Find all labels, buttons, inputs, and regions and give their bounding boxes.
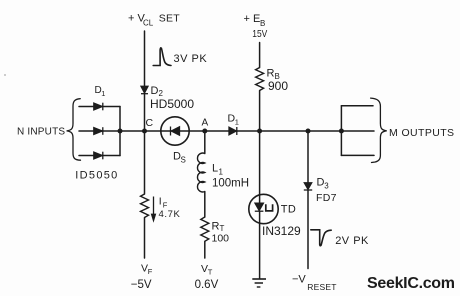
- svg-text:I: I: [159, 196, 162, 208]
- node A: [202, 129, 207, 134]
- wire output top line: [341, 105, 373, 107]
- node outputs: [339, 129, 344, 134]
- node junction dots: [118, 129, 344, 134]
- svg-text:M OUTPUTS: M OUTPUTS: [389, 127, 454, 139]
- brace N inputs: [67, 99, 81, 161]
- svg-text:S: S: [181, 156, 186, 165]
- label RT: [212, 220, 225, 233]
- svg-text:1: 1: [235, 118, 239, 127]
- label IF: [159, 196, 168, 210]
- label +VCL SET: [128, 13, 180, 28]
- brace M outputs: [371, 98, 387, 162]
- diode input bottom: [94, 152, 103, 160]
- svg-text:SET: SET: [159, 13, 180, 25]
- label D2: [151, 85, 164, 98]
- speck artifact: [4, 74, 6, 76]
- wire A column to L1: [204, 131, 206, 154]
- svg-text:2V PK: 2V PK: [335, 235, 369, 247]
- wire RT to VT: [204, 241, 206, 258]
- svg-text:T: T: [208, 268, 213, 277]
- wire input vertical join: [119, 107, 121, 156]
- waveform 2V PK pulse: [311, 230, 331, 246]
- diode DS: [171, 127, 180, 136]
- label L1: [212, 163, 224, 177]
- wire VCL column to bus: [144, 94, 146, 131]
- wire output bottom line: [341, 154, 374, 156]
- wire output vertical join: [340, 106, 342, 156]
- ground: [252, 279, 266, 287]
- wire input bottom line: [79, 155, 120, 157]
- svg-text:SeekIC.com: SeekIC.com: [367, 275, 455, 292]
- wire bus to TD: [259, 131, 261, 203]
- svg-text:CL: CL: [143, 19, 154, 28]
- svg-text:ID5050: ID5050: [75, 170, 118, 182]
- svg-text:TD: TD: [281, 204, 296, 216]
- svg-text:N INPUTS: N INPUTS: [17, 127, 65, 138]
- svg-text:A: A: [202, 118, 209, 129]
- current arrow IF: [152, 197, 156, 221]
- svg-text:3: 3: [324, 181, 329, 190]
- svg-text:900: 900: [268, 79, 288, 93]
- node input join: [118, 129, 123, 134]
- svg-text:D: D: [151, 85, 159, 97]
- label VF: [141, 262, 153, 276]
- svg-text:B: B: [260, 19, 265, 28]
- wire IF resistor to VF: [144, 218, 146, 259]
- svg-text:1: 1: [219, 168, 224, 177]
- wire C column to IF resistor: [144, 131, 146, 194]
- wire TD to ground: [259, 212, 261, 279]
- diode DS circle: [161, 117, 189, 145]
- label DS: [173, 151, 186, 165]
- diode D2: [141, 86, 148, 93]
- label D1 bus: [228, 113, 239, 127]
- wire RB to bus: [259, 91, 261, 132]
- label RB: [267, 68, 280, 81]
- resistor RB: [256, 68, 264, 91]
- svg-text:4.7K: 4.7K: [159, 209, 181, 220]
- svg-text:15V: 15V: [252, 28, 267, 40]
- svg-text:100: 100: [212, 233, 230, 245]
- svg-text:3V PK: 3V PK: [174, 53, 208, 65]
- svg-text:1: 1: [101, 89, 105, 98]
- svg-text:RESET: RESET: [307, 282, 336, 292]
- svg-text:L: L: [212, 163, 218, 175]
- svg-text:HD5000: HD5000: [150, 97, 194, 111]
- resistor IF 4.7K: [141, 194, 149, 218]
- node EB/TD: [257, 129, 262, 134]
- wire D3 to -Vreset: [307, 191, 309, 269]
- resistor RT: [201, 217, 209, 241]
- label VT: [201, 263, 213, 277]
- wire EB column upper: [259, 43, 261, 68]
- svg-text:−5V: −5V: [131, 279, 152, 291]
- waveform 3V PK pulse: [153, 48, 171, 66]
- label D3: [317, 177, 330, 191]
- svg-text:FD7: FD7: [316, 192, 337, 204]
- svg-text:+ E: + E: [244, 13, 261, 25]
- diode input middle: [94, 127, 103, 135]
- wire main bus: [79, 130, 374, 132]
- wire D3 column upper: [307, 131, 309, 183]
- label +EB: [244, 13, 266, 28]
- tunnel diode TD: [255, 203, 273, 211]
- tunnel diode TD circle: [249, 194, 278, 223]
- svg-text:R: R: [267, 68, 275, 80]
- label D1 input: [95, 85, 106, 98]
- svg-text:R: R: [212, 220, 220, 232]
- node D3: [306, 129, 311, 134]
- inductor L1: [197, 153, 204, 192]
- svg-text:100mH: 100mH: [212, 178, 249, 190]
- diode D3: [304, 183, 312, 190]
- label -Vreset: [292, 274, 337, 293]
- svg-text:−V: −V: [292, 274, 306, 286]
- node C: [142, 129, 147, 134]
- diode D1 input top: [94, 103, 103, 111]
- svg-text:C: C: [146, 117, 154, 129]
- diode D1 bus: [229, 127, 237, 135]
- wire VCL column upper: [144, 31, 146, 86]
- wire L1 to RT: [204, 192, 206, 218]
- svg-text:F: F: [148, 267, 153, 276]
- svg-text:0.6V: 0.6V: [195, 279, 219, 291]
- svg-text:D: D: [317, 177, 325, 189]
- svg-text:IN3129: IN3129: [262, 224, 301, 238]
- wire input top line: [79, 106, 120, 108]
